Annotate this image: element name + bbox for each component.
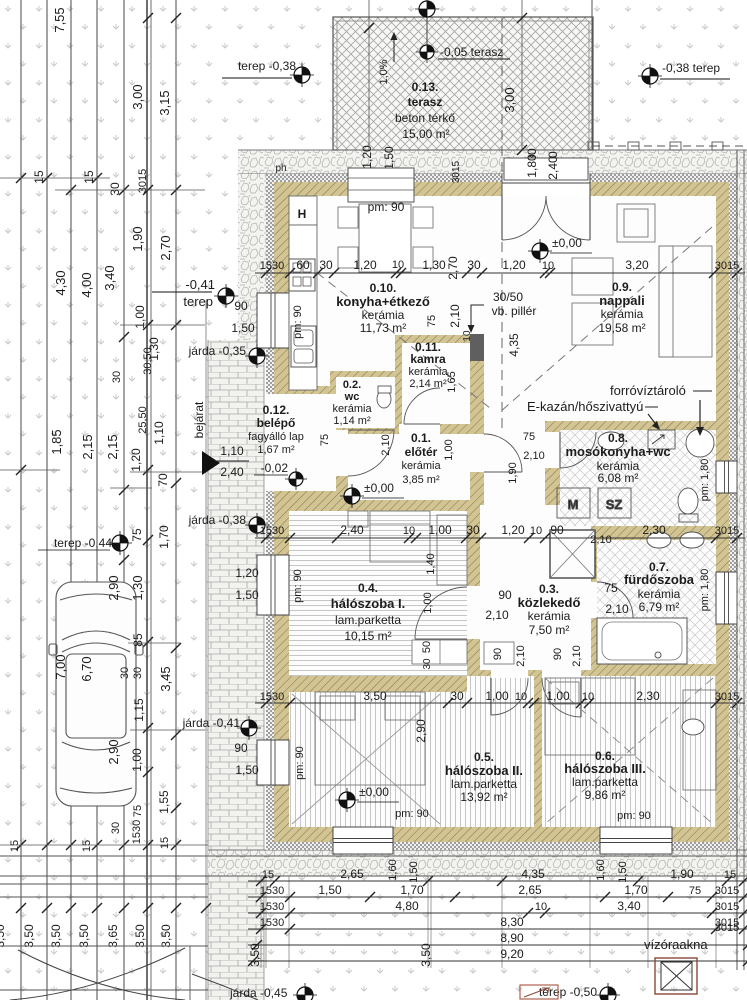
svg-text:15: 15 [724, 869, 736, 881]
svg-text:1,00: 1,00 [443, 439, 455, 460]
svg-text:2,90: 2,90 [106, 575, 121, 600]
svg-text:15: 15 [9, 840, 21, 852]
svg-text:fürdőszoba: fürdőszoba [624, 572, 695, 587]
room: corridor 0.3 floor [484, 421, 545, 505]
svg-text:3015: 3015 [137, 169, 149, 193]
svg-text:kerámia: kerámia [601, 307, 644, 321]
svg-text:M: M [568, 497, 579, 512]
svg-text:járda -0,45: járda -0,45 [229, 986, 288, 1000]
svg-text:10: 10 [462, 330, 473, 342]
svg-text:85: 85 [131, 633, 145, 647]
svg-text:1,50: 1,50 [318, 883, 342, 897]
svg-text:beton térkő: beton térkő [395, 111, 455, 125]
dimension chain kitchen/living y=273 [255, 272, 745, 274]
svg-text:3,50: 3,50 [419, 943, 433, 967]
svg-text:3015: 3015 [715, 885, 739, 897]
room: laundry 0.8 floor [560, 430, 716, 526]
svg-text:30: 30 [110, 822, 122, 834]
svg-text:pm: 90: pm: 90 [395, 808, 429, 820]
svg-text:pm: 90: pm: 90 [292, 569, 304, 603]
window: bedroom III south [600, 827, 672, 854]
rubble stone band above house [238, 150, 747, 174]
sidewalk lines bottom [0, 855, 747, 857]
svg-text:E-kazán/hőszivattyú: E-kazán/hőszivattyú [527, 399, 643, 414]
rubble stone strip right of house [737, 174, 747, 850]
svg-text:3015: 3015 [715, 691, 739, 703]
svg-text:11,73 m²: 11,73 m² [360, 321, 406, 335]
slope arrow 1,0% [393, 36, 395, 62]
room: hall 0.1 floor [348, 434, 470, 500]
svg-text:1,65: 1,65 [446, 371, 458, 392]
svg-text:2,10: 2,10 [515, 645, 527, 666]
dimension chain bedroom I y=538 [255, 537, 745, 539]
svg-text:1,15: 1,15 [132, 698, 146, 722]
svg-text:-0,41: -0,41 [185, 277, 215, 292]
svg-text:15: 15 [81, 840, 93, 852]
svg-text:75: 75 [130, 528, 144, 542]
svg-text:3015: 3015 [715, 260, 739, 272]
entrance door swing [348, 430, 394, 476]
svg-text:kamra: kamra [410, 352, 446, 366]
svg-text:2,40: 2,40 [546, 156, 560, 180]
svg-text:1530: 1530 [131, 820, 143, 844]
svg-text:3,50: 3,50 [49, 924, 63, 948]
left horizontal dimension connector segments [0, 177, 110, 179]
svg-text:1,50: 1,50 [408, 861, 420, 882]
svg-text:30/50: 30/50 [493, 290, 523, 304]
svg-text:30: 30 [450, 689, 464, 703]
svg-text:30: 30 [132, 667, 144, 679]
heat pump arrow [648, 414, 658, 427]
kitchen counter with appliances [289, 196, 317, 390]
svg-text:terasz: terasz [408, 95, 443, 109]
pantry door swing [404, 388, 440, 424]
svg-text:pm: 90: pm: 90 [292, 305, 304, 339]
dining table and chairs [338, 204, 433, 272]
svg-text:1,67 m²: 1,67 m² [257, 444, 295, 456]
hall-corridor door swing [484, 434, 522, 472]
svg-text:70: 70 [156, 473, 170, 487]
svg-text:nappali: nappali [599, 293, 645, 308]
svg-text:lam.parketta: lam.parketta [451, 777, 517, 791]
window: laundry east [716, 461, 737, 493]
svg-text:vb. pillér: vb. pillér [492, 304, 537, 318]
window: bedroom I west [257, 555, 289, 615]
room: bathroom 0.7 floor [597, 540, 716, 664]
stove [289, 259, 315, 291]
bedroom III furniture [545, 678, 716, 790]
svg-text:9,86 m²: 9,86 m² [585, 788, 626, 802]
svg-text:terep -0,38: terep -0,38 [238, 59, 296, 73]
bottom extension lines [260, 876, 262, 968]
svg-text:90: 90 [234, 299, 248, 313]
svg-text:pm: 90: pm: 90 [617, 810, 651, 822]
svg-text:3015: 3015 [451, 160, 462, 183]
svg-text:1,50: 1,50 [382, 146, 396, 170]
svg-text:0.10.: 0.10. [370, 281, 397, 295]
dimension ticks on left lines [143, 13, 153, 23]
door leaves [501, 196, 503, 240]
svg-text:2,10: 2,10 [380, 434, 392, 455]
svg-text:10: 10 [530, 525, 542, 537]
svg-text:járda -0,35: járda -0,35 [188, 344, 247, 358]
svg-text:bejárat: bejárat [192, 401, 206, 438]
svg-text:6,70: 6,70 [79, 656, 94, 681]
svg-text:1,40: 1,40 [425, 553, 437, 574]
svg-text:SZ: SZ [606, 497, 623, 512]
terep -0,38 markers [290, 63, 314, 87]
svg-text:0.2.: 0.2. [343, 379, 361, 391]
reinforced concrete pillar 30/50 [470, 334, 484, 361]
svg-text:2,65: 2,65 [340, 867, 364, 881]
svg-text:1,20: 1,20 [235, 566, 259, 580]
window: bedroom II south [333, 827, 393, 854]
svg-text:1,14 m²: 1,14 m² [333, 415, 371, 427]
svg-text:1,30: 1,30 [422, 258, 446, 272]
svg-text:75: 75 [689, 885, 701, 897]
svg-text:2,40: 2,40 [340, 523, 364, 537]
svg-text:0.8.: 0.8. [608, 431, 628, 445]
svg-text:3,15: 3,15 [157, 90, 172, 115]
svg-text:3,85 m²: 3,85 m² [402, 474, 440, 486]
svg-text:3,50: 3,50 [133, 924, 147, 948]
fence dashed line right [592, 145, 747, 147]
svg-text:3,00: 3,00 [130, 84, 145, 109]
svg-text:75: 75 [132, 805, 144, 817]
svg-text:7,00: 7,00 [53, 654, 68, 679]
bottom dimension chains [248, 880, 747, 882]
porch 0.12 (open) [266, 394, 336, 491]
svg-text:2,10: 2,10 [448, 304, 462, 328]
terrace door sill [504, 158, 588, 180]
svg-text:13,92 m²: 13,92 m² [460, 790, 507, 804]
svg-text:4,00: 4,00 [79, 272, 94, 297]
svg-text:1530: 1530 [260, 691, 284, 703]
svg-text:hálószoba II.: hálószoba II. [445, 763, 523, 778]
svg-text:terep -0,44: terep -0,44 [54, 536, 112, 550]
svg-text:1,00: 1,00 [546, 689, 570, 703]
svg-text:hálószoba III.: hálószoba III. [564, 761, 646, 776]
svg-text:2,10: 2,10 [590, 534, 611, 546]
svg-text:lam.parketta: lam.parketta [572, 775, 638, 789]
svg-text:3,00: 3,00 [502, 87, 517, 112]
room: bedroom I 0.4 floor [289, 511, 467, 676]
svg-text:1,20: 1,20 [501, 523, 525, 537]
bedroom II door swing [491, 678, 528, 715]
svg-text:75: 75 [319, 434, 331, 446]
svg-text:1,10: 1,10 [220, 444, 244, 458]
svg-text:0.1.: 0.1. [411, 431, 431, 445]
svg-text:15: 15 [262, 869, 274, 881]
svg-text:3,50: 3,50 [159, 924, 173, 948]
svg-text:90: 90 [498, 588, 512, 602]
svg-text:3015: 3015 [715, 901, 739, 913]
terrace side dimension lines [521, 0, 523, 150]
svg-text:3,50: 3,50 [363, 689, 387, 703]
svg-text:1,20: 1,20 [353, 258, 377, 272]
svg-text:4,30: 4,30 [53, 270, 68, 295]
svg-text:járda -0,38: járda -0,38 [188, 513, 247, 527]
svg-text:1,85: 1,85 [49, 429, 64, 454]
svg-text:kerámia: kerámia [408, 366, 448, 378]
svg-text:30,50: 30,50 [142, 347, 154, 375]
svg-text:1,0%: 1,0% [378, 59, 390, 84]
svg-text:0.5.: 0.5. [474, 750, 494, 764]
svg-text:1,60: 1,60 [387, 859, 399, 880]
room: wc 0.2 floor [336, 377, 395, 428]
svg-text:1,90: 1,90 [670, 867, 694, 881]
toilet laundry [678, 488, 698, 514]
svg-text:2,70: 2,70 [158, 235, 173, 260]
svg-text:30: 30 [422, 658, 433, 670]
svg-text:90: 90 [552, 648, 564, 660]
svg-text:75: 75 [604, 581, 618, 595]
svg-text:8,30: 8,30 [500, 915, 524, 929]
svg-text:3,50: 3,50 [248, 943, 262, 967]
svg-text:1530: 1530 [260, 901, 284, 913]
svg-text:1,50: 1,50 [231, 321, 255, 335]
svg-text:3,50: 3,50 [77, 924, 91, 948]
svg-text:pm: 1,80: pm: 1,80 [699, 569, 711, 612]
svg-text:4,80: 4,80 [395, 899, 419, 913]
sink [291, 326, 316, 367]
svg-text:75: 75 [426, 315, 438, 327]
shower tray [550, 530, 595, 578]
room: kitchen 0.10 floor [289, 196, 470, 335]
load-bearing walls (hatched) [274, 182, 729, 842]
svg-text:3,40: 3,40 [617, 899, 641, 913]
svg-text:1,00: 1,00 [485, 689, 509, 703]
bedroom I door swing [415, 587, 467, 639]
hot water tank arrow [699, 400, 701, 432]
svg-text:1,70: 1,70 [624, 883, 648, 897]
svg-text:15: 15 [159, 837, 171, 849]
svg-text:1530: 1530 [260, 917, 284, 929]
room: bedroom II 0.5 floor [289, 692, 534, 827]
svg-text:terep: terep [183, 294, 213, 309]
svg-text:1530: 1530 [260, 260, 284, 272]
svg-text:1,50: 1,50 [235, 763, 259, 777]
svg-text:30: 30 [466, 523, 480, 537]
svg-text:30: 30 [119, 667, 131, 679]
svg-text:1,90: 1,90 [130, 226, 145, 251]
svg-text:2,10: 2,10 [571, 645, 583, 666]
svg-text:90: 90 [234, 741, 248, 755]
svg-text:2,30: 2,30 [636, 689, 660, 703]
svg-text:mosókonyha+wc: mosókonyha+wc [565, 444, 670, 459]
svg-text:wc: wc [344, 391, 360, 403]
svg-text:kerámia: kerámia [638, 587, 681, 601]
dashed diagonals [293, 254, 490, 408]
bathroom basins [647, 532, 671, 548]
svg-text:1,00: 1,00 [422, 592, 434, 613]
svg-text:2,90: 2,90 [106, 739, 121, 764]
svg-text:2,40: 2,40 [220, 465, 244, 479]
laundry fixtures [557, 429, 714, 522]
dimension chain bedrooms y=703 [255, 702, 745, 704]
svg-text:6,79 m²: 6,79 m² [639, 600, 680, 614]
wc toilet [377, 390, 391, 408]
svg-text:3,40: 3,40 [102, 265, 117, 290]
window: kitchen west [257, 293, 289, 348]
svg-text:0.3.: 0.3. [539, 582, 559, 596]
svg-text:3015: 3015 [715, 525, 739, 537]
terrace slope marker -0,05 [416, 41, 438, 63]
svg-text:75: 75 [523, 431, 535, 443]
svg-text:3,65: 3,65 [106, 924, 120, 948]
svg-text:forróvíztároló: forróvíztároló [610, 383, 686, 398]
svg-text:kerámia: kerámia [528, 609, 571, 623]
svg-text:belépő: belépő [257, 416, 296, 430]
svg-text:7,55: 7,55 [52, 7, 67, 32]
svg-text:2,90: 2,90 [414, 719, 428, 743]
svg-text:kerámia: kerámia [401, 460, 441, 472]
svg-text:10: 10 [403, 525, 415, 537]
svg-text:előtér: előtér [405, 445, 438, 459]
svg-text:1,55: 1,55 [157, 790, 171, 814]
svg-text:2,10: 2,10 [485, 608, 509, 622]
svg-text:1,80: 1,80 [525, 154, 539, 178]
svg-text:90: 90 [550, 523, 564, 537]
room: living 0.9 floor [484, 196, 716, 421]
svg-text:1,70: 1,70 [157, 525, 171, 549]
svg-text:2,10: 2,10 [523, 450, 544, 462]
window: kitchen north [350, 174, 412, 196]
svg-text:pm: 90: pm: 90 [368, 200, 405, 214]
svg-text:1,20: 1,20 [129, 448, 143, 472]
svg-text:±0,00: ±0,00 [359, 785, 389, 799]
svg-text:30: 30 [319, 258, 333, 272]
svg-text:10: 10 [392, 259, 404, 271]
svg-text:1530: 1530 [260, 885, 284, 897]
svg-text:1,20: 1,20 [360, 145, 374, 169]
svg-text:-0,05 terasz: -0,05 terasz [440, 45, 503, 59]
svg-text:6,08 m²: 6,08 m² [598, 471, 639, 485]
svg-text:50: 50 [421, 641, 433, 653]
svg-text:1,00: 1,00 [428, 523, 452, 537]
svg-text:90: 90 [492, 648, 504, 660]
svg-text:0.4.: 0.4. [358, 581, 378, 595]
svg-text:2,30: 2,30 [642, 523, 666, 537]
living room furniture [572, 204, 712, 357]
svg-text:3,50: 3,50 [22, 924, 36, 948]
exterior insulation layer (checker) [266, 174, 737, 850]
svg-text:-0,02: -0,02 [261, 461, 289, 475]
svg-text:járda -0,41: járda -0,41 [182, 716, 241, 730]
bedroom II bed [315, 692, 425, 785]
level markers [528, 239, 552, 263]
svg-text:25,50: 25,50 [137, 406, 149, 434]
svg-text:konyha+étkező: konyha+étkező [336, 294, 430, 309]
bedroom III door swing [542, 678, 581, 717]
svg-text:30: 30 [467, 258, 481, 272]
rubble stone band below house [208, 850, 747, 876]
highlight box around 60 on chain [291, 261, 317, 275]
svg-text:lam.parketta: lam.parketta [335, 613, 401, 627]
svg-text:1,20: 1,20 [502, 258, 526, 272]
bathroom door swing [597, 582, 633, 618]
svg-text:3015: 3015 [715, 922, 739, 934]
room: bedroom III 0.6 floor [542, 676, 716, 827]
laundry door swing [560, 432, 596, 468]
svg-text:1,70: 1,70 [400, 883, 424, 897]
svg-text:±0,00: ±0,00 [552, 236, 582, 250]
kitchen window sill box [348, 168, 414, 202]
svg-text:kerámia: kerámia [332, 403, 372, 415]
svg-text:15: 15 [32, 170, 46, 184]
svg-text:fagyálló lap: fagyálló lap [248, 431, 304, 443]
svg-text:1,50: 1,50 [617, 861, 629, 882]
svg-text:2,10: 2,10 [605, 602, 629, 616]
bedroom I furniture [348, 511, 467, 585]
svg-text:8,90: 8,90 [500, 931, 524, 945]
svg-text:4,35: 4,35 [507, 333, 521, 357]
svg-text:1,50: 1,50 [235, 588, 259, 602]
car (top view) in parking place [49, 582, 143, 806]
window: bathroom east [716, 572, 737, 624]
svg-text:10: 10 [535, 901, 547, 913]
svg-text:0.13.: 0.13. [412, 80, 439, 94]
svg-text:4,35: 4,35 [521, 867, 545, 881]
open connection kitchen-living [470, 196, 484, 334]
svg-text:3,45: 3,45 [158, 666, 173, 691]
svg-text:vízóraakna: vízóraakna [644, 937, 708, 952]
svg-text:15,00 m²: 15,00 m² [402, 127, 449, 141]
svg-text:15: 15 [82, 170, 96, 184]
svg-text:2,70: 2,70 [446, 256, 460, 280]
right boundary lines [736, 150, 738, 970]
svg-text:1530: 1530 [260, 525, 284, 537]
svg-text:60: 60 [296, 258, 310, 272]
bathroom toilet [682, 719, 704, 735]
svg-text:2,15: 2,15 [80, 434, 95, 459]
svg-text:0.12.: 0.12. [263, 403, 290, 417]
svg-text:10: 10 [582, 691, 594, 703]
terrace 0.13 with paver crosshatch [333, 17, 593, 150]
terrace double door opening [502, 174, 590, 196]
terrace double door swings [502, 196, 546, 240]
partially visible marker top [415, 0, 439, 21]
svg-text:3,50: 3,50 [0, 924, 7, 948]
svg-text:pm: 90: pm: 90 [294, 746, 306, 780]
svg-text:30: 30 [111, 371, 123, 383]
svg-text:1,90: 1,90 [507, 462, 519, 483]
svg-text:pm: 1,80: pm: 1,80 [699, 459, 711, 502]
svg-text:hálószoba I.: hálószoba I. [331, 596, 405, 611]
svg-text:2,14 m²: 2,14 m² [409, 378, 447, 390]
svg-text:10: 10 [515, 691, 527, 703]
svg-text:19,58 m²: 19,58 m² [598, 321, 645, 335]
svg-text:ph: ph [275, 163, 286, 174]
ticks bottom-left lines [16, 903, 26, 913]
left fence horizontal lines bottom [0, 883, 208, 885]
svg-text:1,00: 1,00 [130, 748, 144, 772]
dashed parcel line [241, 300, 243, 1000]
svg-text:1,60: 1,60 [595, 859, 607, 880]
svg-text:3,20: 3,20 [625, 258, 649, 272]
svg-text:-0,38 terep: -0,38 terep [662, 61, 720, 75]
svg-text:0.9.: 0.9. [612, 280, 632, 294]
svg-text:1,30: 1,30 [130, 575, 145, 600]
svg-text:30: 30 [108, 182, 122, 196]
gate swing arcs [10, 948, 185, 1000]
svg-text:kerámia: kerámia [362, 308, 405, 322]
svg-text:9,20: 9,20 [500, 947, 524, 961]
brick walkway left of house [208, 340, 264, 1000]
svg-text:2,15: 2,15 [105, 434, 120, 459]
rubble stone strip left of house (upper) [238, 174, 266, 340]
wardrobe row bedroom I / corridor [412, 640, 467, 664]
